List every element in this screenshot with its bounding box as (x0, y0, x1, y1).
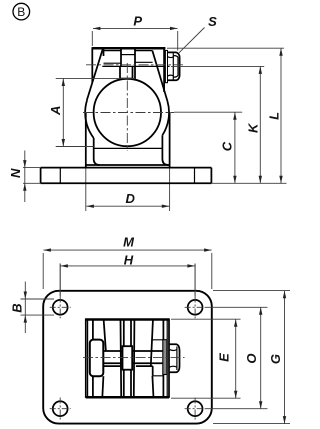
clamp top face edge (92, 47, 165, 50)
bolt hole bottom-left (53, 401, 68, 416)
hex nut (170, 344, 180, 372)
dimension B (10, 282, 55, 334)
right lobe right face (163, 48, 165, 92)
left lobe inner vertical (120, 48, 122, 66)
dimension H (60, 252, 195, 296)
shoulder line (102, 65, 169, 67)
flange plate outline (43, 291, 212, 424)
svg-text:M: M (123, 235, 135, 250)
screw axis centerline (86, 64, 183, 66)
outer left arc (85, 100, 94, 138)
svg-text:H: H (124, 252, 134, 267)
bolt hole top-right (188, 300, 203, 315)
dimension O (244, 307, 263, 408)
right chamfer slant (152, 51, 167, 101)
right rib with fillet (162, 135, 168, 165)
svg-text:E: E (217, 353, 232, 362)
dimension K (245, 66, 262, 183)
screw tail tab (90, 340, 104, 377)
svg-text:L: L (266, 112, 281, 120)
svg-text:P: P (133, 14, 142, 29)
dimension L (266, 48, 282, 183)
screw washer front view (165, 50, 167, 82)
screw axis centerline bottom view (83, 356, 185, 358)
bolt hole top-left (53, 300, 68, 315)
K top extension (171, 65, 264, 67)
svg-text:S: S (208, 14, 217, 29)
dimension N (8, 151, 40, 203)
centre bar (123, 321, 125, 397)
right jaw ledge lines at washer level (151, 340, 163, 376)
screw shank (103, 351, 122, 363)
dimension P (92, 14, 177, 51)
right rib line (162, 320, 164, 397)
bore circle (94, 79, 161, 146)
dimension G (268, 291, 286, 424)
hole crosses (50, 297, 206, 421)
left rib line (92, 320, 94, 397)
left chamfer slant (87, 50, 103, 101)
E extension lines (171, 318, 241, 320)
left lobe left edge (91, 47, 93, 82)
svg-text:K: K (245, 122, 260, 133)
svg-text:O: O (244, 353, 259, 363)
base bottom extension for C K L (211, 182, 286, 184)
C top extension (bore axis extended) (174, 111, 242, 113)
slit boss below shoulder (120, 67, 133, 79)
svg-text:C: C (220, 141, 235, 151)
bolt hole bottom-right (188, 401, 203, 416)
left silhouette vertical + D extension (85, 113, 87, 168)
left jaw (102, 321, 121, 397)
right lobe left edge (134, 48, 136, 80)
G extension lines (213, 290, 290, 292)
slot line under bore (94, 147, 162, 149)
svg-text:D: D (126, 191, 136, 206)
dimension D (86, 191, 169, 208)
svg-text:N: N (8, 168, 23, 178)
base plate (41, 168, 212, 184)
svg-text:A: A (48, 106, 63, 116)
right lobe window (135, 50, 153, 52)
left lobe window (103, 48, 105, 56)
right silhouette vertical + D extension (169, 113, 171, 168)
dimension A (48, 78, 135, 146)
bore vertical centerline (126, 63, 128, 151)
block inner wall lines (87, 320, 89, 397)
hex head S (168, 52, 180, 80)
bore horizontal centerline (83, 112, 174, 114)
clamp block outline (86, 318, 169, 398)
dimension M (43, 235, 212, 290)
outer right arc (162, 101, 169, 135)
dimension C (220, 112, 237, 183)
slot notch bottom between lobes (121, 54, 135, 56)
washer (edge view, grey) (163, 340, 167, 375)
svg-text:G: G (268, 354, 283, 364)
label S with leader (179, 14, 217, 53)
L top extension (167, 47, 284, 49)
left rib with fillet (94, 138, 100, 165)
svg-text:B: B (17, 5, 25, 19)
dimension E (217, 319, 238, 398)
body web bottom edge (86, 164, 170, 166)
view marker circled B (13, 3, 30, 20)
svg-text:B: B (10, 303, 25, 312)
right jaw (134, 321, 154, 397)
screw square block (123, 346, 133, 370)
